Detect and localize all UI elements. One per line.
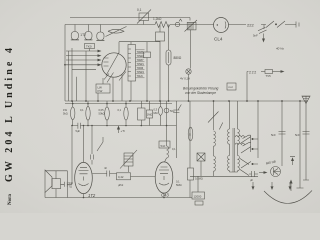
- svg-text:KW: KW: [98, 89, 103, 93]
- svg-text:1T2: 1T2: [80, 33, 86, 37]
- svg-text:12000: 12000: [194, 195, 202, 199]
- svg-text:5nF: 5nF: [69, 181, 74, 185]
- svg-text:von der Skalenlampe: von der Skalenlampe: [185, 91, 216, 95]
- svg-text:TV5: TV5: [266, 74, 272, 78]
- svg-text:222: 222: [247, 23, 254, 28]
- svg-text:0,1: 0,1: [80, 108, 84, 112]
- svg-text:C43: C43: [161, 193, 169, 198]
- svg-text:4V 0,1A: 4V 0,1A: [180, 77, 190, 81]
- svg-text:5nF: 5nF: [253, 34, 258, 38]
- svg-text:0,1: 0,1: [118, 108, 122, 112]
- svg-text:nur: nur: [229, 85, 233, 89]
- svg-text:5kΩ: 5kΩ: [63, 112, 68, 116]
- svg-text:Nora: Nora: [8, 194, 13, 205]
- svg-text:70L6: 70L6: [137, 74, 144, 78]
- svg-text:+Tr: +Tr: [121, 129, 125, 133]
- svg-text:µF: µF: [250, 178, 253, 182]
- svg-text:880Ω: 880Ω: [174, 56, 182, 60]
- svg-text:5µF: 5µF: [76, 129, 81, 133]
- svg-text:µPol: µPol: [118, 183, 124, 187]
- svg-text:CL4: CL4: [214, 37, 223, 42]
- svg-text:MΩ: MΩ: [154, 111, 158, 115]
- svg-text:nF: nF: [104, 166, 107, 170]
- svg-text:0,42: 0,42: [118, 175, 124, 179]
- svg-text:50µ: 50µ: [170, 109, 175, 113]
- svg-text:5nF: 5nF: [271, 133, 276, 137]
- svg-text:1MΩ: 1MΩ: [147, 113, 153, 117]
- svg-text:0,1: 0,1: [137, 8, 142, 12]
- svg-text:222: 222: [249, 71, 257, 75]
- svg-text:7Ω: 7Ω: [69, 185, 72, 189]
- svg-text:5nF: 5nF: [161, 144, 166, 148]
- svg-text:50kΩ: 50kΩ: [99, 112, 105, 116]
- svg-text:5nF: 5nF: [295, 133, 300, 137]
- svg-text:1W: 1W: [63, 108, 67, 112]
- svg-text:0,1: 0,1: [172, 147, 176, 151]
- svg-text:1T2: 1T2: [88, 193, 96, 198]
- svg-text:TK0: TK0: [86, 45, 92, 49]
- svg-text:1,2kΩ: 1,2kΩ: [153, 17, 162, 21]
- svg-text:5MΩ: 5MΩ: [176, 183, 182, 187]
- svg-text:0,05: 0,05: [99, 108, 105, 112]
- svg-text:0,1MΩ: 0,1MΩ: [195, 177, 203, 181]
- svg-text:S: S: [189, 133, 191, 137]
- svg-text:40 Va: 40 Va: [276, 47, 284, 51]
